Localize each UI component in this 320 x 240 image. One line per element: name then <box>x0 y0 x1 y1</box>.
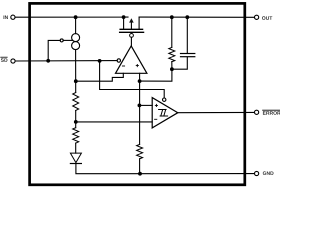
wire OUT rail down to R3 <box>171 17 173 47</box>
bubble U1 shutdown input <box>117 59 120 62</box>
pin ERROR label (overlined) <box>263 111 281 115</box>
pin OUT terminal circle <box>255 15 259 19</box>
node OUT-resistor junction <box>170 15 174 19</box>
wire comparator + input <box>139 104 152 106</box>
resistor R2 (lower divider) <box>73 128 79 143</box>
op-amp U1 minus sign <box>122 65 124 67</box>
pin SD label (overlined) <box>1 58 8 62</box>
resistor R4 (pull to gnd) <box>137 144 143 158</box>
node GND rail junction <box>138 172 142 176</box>
node SD-enable branch junction <box>46 59 50 63</box>
node IN-currentsource junction <box>74 15 78 19</box>
pin GND label <box>263 171 274 175</box>
resistor R1 (upper divider) <box>73 93 79 111</box>
node divider tap junction <box>74 120 78 124</box>
wire shutdown to comparator enable <box>100 61 165 98</box>
wire gate to amp output <box>130 37 132 46</box>
wire OUT rail down to C1 <box>186 17 188 53</box>
bubble comparator enable <box>163 98 166 101</box>
wire OUT rail <box>139 16 254 18</box>
wire U1 noninverting lead down <box>139 73 141 144</box>
resistor R3 (feedback) <box>169 47 175 61</box>
capacitor C1 plates <box>181 53 195 55</box>
node comparator + junction <box>138 104 142 108</box>
wire R4 to GND rail <box>139 159 141 174</box>
pin IN label <box>4 16 8 19</box>
pin GND terminal circle <box>255 171 259 175</box>
op-amp U1 plus sign <box>136 65 138 67</box>
wire comparator - input from divider tap <box>76 121 152 123</box>
wire shutdown to current source enable <box>48 40 60 60</box>
wire U1 inverting input path <box>76 73 124 81</box>
pin SD terminal circle <box>11 59 15 63</box>
wire R2 to diode <box>75 143 77 153</box>
transistor Q1 channel bar <box>120 28 143 30</box>
wire IN rail <box>15 16 128 18</box>
pin IN terminal circle <box>11 15 15 19</box>
transistor Q1 gate bar <box>120 31 144 33</box>
wire IN rail down to current source <box>75 17 77 33</box>
wire R1 to tap <box>75 111 77 128</box>
comparator U2 error flag <box>152 98 178 128</box>
wire SD line <box>15 60 117 62</box>
wire current source down through SD line <box>75 50 77 93</box>
current source I1 (stacked circles) <box>72 34 80 42</box>
wire R3 bottom <box>171 62 173 69</box>
bubble current source enable <box>60 39 63 42</box>
node RC bottom junction <box>170 67 174 71</box>
comparator U2 plus sign <box>155 104 157 106</box>
wire ERROR output <box>178 111 255 113</box>
node R-column feedback junction <box>74 79 78 83</box>
node OUT-capacitor junction <box>185 15 189 19</box>
wire C1 bottom <box>172 57 187 69</box>
diode D1 (zener/bandgap) <box>70 153 81 163</box>
node IN-mosfet source junction <box>122 15 126 19</box>
pin ERROR terminal circle <box>255 110 259 114</box>
comparator U2 minus sign <box>155 118 157 120</box>
IC body border <box>30 3 245 184</box>
wire diode to ground rail <box>76 164 255 174</box>
transistor Q1 body arrow <box>130 22 132 29</box>
pin OUT label <box>262 16 272 20</box>
op-amp U1 error amplifier <box>116 46 147 73</box>
transistor Q1 gate bubble <box>130 34 134 38</box>
transistor Q1 pass PMOS: source lead <box>123 17 125 29</box>
node amp+/RC junction <box>138 79 142 83</box>
transistor Q1 drain lead <box>138 17 140 29</box>
wire feedback to RC bottom <box>140 69 172 81</box>
comparator U2 hysteresis symbol <box>159 110 168 117</box>
node SD-comparator branch junction <box>98 59 102 63</box>
wire bubble to current source <box>63 39 72 41</box>
